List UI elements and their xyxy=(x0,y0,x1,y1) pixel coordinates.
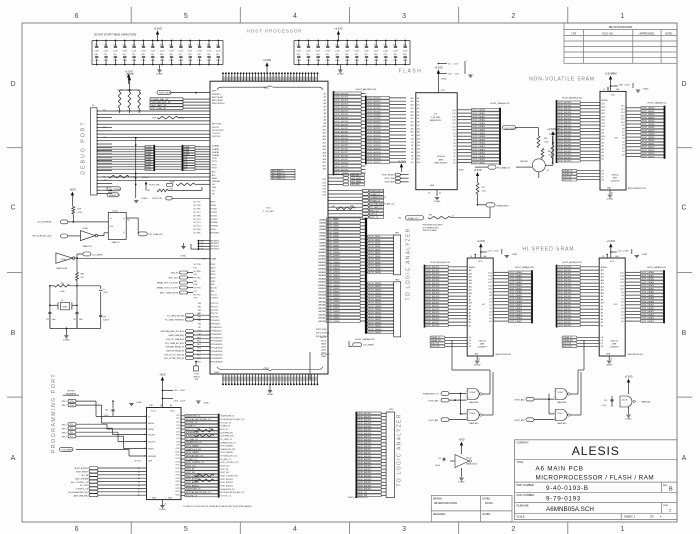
svg-text:BR/FT/BVRG4: BR/FT/BVRG4 xyxy=(212,103,224,105)
svg-text:OE: OE xyxy=(601,340,603,342)
svg-text:RTE/Y1: RTE/Y1 xyxy=(148,449,154,451)
svg-text:HOST_ADDR07: HOST_ADDR07 xyxy=(335,117,348,120)
svg-text:C53: C53 xyxy=(306,44,309,46)
svg-text:U13-C: U13-C xyxy=(557,413,563,415)
svg-text:1.00M: 1.00M xyxy=(60,291,65,293)
svg-text:HOST_ADDR04: HOST_ADDR04 xyxy=(558,279,571,282)
svg-text:5V CURRENT INTO: 5V CURRENT INTO xyxy=(423,227,440,229)
svg-text:HOST_ADDR(00:23): HOST_ADDR(00:23) xyxy=(430,261,450,264)
svg-text:C38: C38 xyxy=(188,54,191,56)
svg-text:D13: D13 xyxy=(621,112,624,114)
svg-text:HOST_ADDR02: HOST_ADDR02 xyxy=(368,104,381,107)
svg-text:SERIAL_HOST_TO_FRT: SERIAL_HOST_TO_FRT xyxy=(157,287,179,290)
svg-text:C84: C84 xyxy=(105,410,108,412)
svg-text:9-40-0193-B: 9-40-0193-B xyxy=(546,485,589,492)
svg-text:0.1uF: 0.1uF xyxy=(216,50,220,52)
svg-text:RXD2: RXD2 xyxy=(211,268,216,270)
svg-text:LTR: LTR xyxy=(571,31,576,35)
svg-text:0.1uF: 0.1uF xyxy=(179,50,183,52)
svg-text:A17: A17 xyxy=(601,269,604,272)
svg-text:HOST_ADDR11: HOST_ADDR11 xyxy=(558,301,571,304)
svg-text:MEYER/KOMUS/SHM: MEYER/KOMUS/SHM xyxy=(434,503,457,505)
svg-text:DATED:: DATED: xyxy=(483,498,492,501)
svg-text:HOST_DATA31: HOST_DATA31 xyxy=(327,320,340,323)
svg-text:D7: D7 xyxy=(453,140,455,142)
svg-text:HOST_DATA24: HOST_DATA24 xyxy=(327,297,340,300)
svg-text:HOST_DATA16: HOST_DATA16 xyxy=(327,271,340,274)
svg-text:C39: C39 xyxy=(197,54,200,56)
svg-text:N/C PB1: N/C PB1 xyxy=(194,233,201,235)
svg-text:HOST_DATA23: HOST_DATA23 xyxy=(327,294,340,297)
svg-text:HOST_DATA23: HOST_DATA23 xyxy=(369,305,382,308)
svg-text:D11: D11 xyxy=(621,119,624,121)
svg-text:D7: D7 xyxy=(622,132,624,134)
svg-text:HOST_ADDR05: HOST_ADDR05 xyxy=(558,282,571,285)
svg-text:C58: C58 xyxy=(151,44,154,46)
svg-text:I/O7: I/O7 xyxy=(176,438,179,440)
svg-text:C28: C28 xyxy=(297,54,300,56)
svg-text:TP9: TP9 xyxy=(70,424,73,426)
svg-text:HOST_DATA18: HOST_DATA18 xyxy=(327,277,340,280)
svg-text:HOST_ADDR11: HOST_ADDR11 xyxy=(368,134,381,137)
svg-text:EPLD_CS: EPLD_CS xyxy=(370,210,379,212)
svg-text:D: D xyxy=(10,81,15,88)
svg-text:HOST_ADDR18: HOST_ADDR18 xyxy=(358,471,371,474)
svg-text:0.033uF: 0.033uF xyxy=(103,319,109,321)
svg-text:C57: C57 xyxy=(73,319,76,321)
svg-text:DRSHW: DRSHW xyxy=(211,226,218,228)
svg-text:CS0_FLASH/USER_SEL: CS0_FLASH/USER_SEL xyxy=(68,491,88,494)
svg-text:HOST_ADDR18: HOST_ADDR18 xyxy=(426,324,439,327)
svg-text:HOST_ADDR11: HOST_ADDR11 xyxy=(335,130,348,133)
svg-text:D4: D4 xyxy=(453,149,455,151)
svg-text:HOST_ADDR16: HOST_ADDR16 xyxy=(368,151,381,154)
svg-text:0.1uF: 0.1uF xyxy=(455,74,459,76)
svg-text:HOST_ADDR02: HOST_ADDR02 xyxy=(335,99,348,102)
svg-text:C107|: C107| xyxy=(174,401,179,403)
svg-text:C52: C52 xyxy=(297,44,300,46)
svg-text:TP8: TP8 xyxy=(70,428,73,430)
svg-text:C: C xyxy=(10,205,15,212)
svg-text:A9: A9 xyxy=(469,295,471,298)
svg-text:HOST_ADDR05: HOST_ADDR05 xyxy=(335,110,348,113)
svg-text:A3: A3 xyxy=(417,104,419,107)
svg-text:HOST_DATA17: HOST_DATA17 xyxy=(327,274,340,277)
svg-text:HOST_DATA(00:31): HOST_DATA(00:31) xyxy=(491,102,510,105)
svg-text:HOST_DATA12: HOST_DATA12 xyxy=(642,310,655,313)
svg-text:HOST_ADDR01: HOST_ADDR01 xyxy=(335,96,348,99)
svg-text:3B2: 3B2 xyxy=(200,249,203,251)
svg-text:THIS RESISTOR LIMITS: THIS RESISTOR LIMITS xyxy=(423,225,444,227)
svg-text:0.1uF: 0.1uF xyxy=(316,50,320,52)
svg-text:DGND: DGND xyxy=(606,365,613,367)
svg-text:DATA10: DATA10 xyxy=(318,251,325,254)
svg-text:HOST_DATA10: HOST_DATA10 xyxy=(642,139,655,142)
svg-text:HOST_DATA29: HOST_DATA29 xyxy=(327,313,340,316)
svg-text:DGND: DGND xyxy=(156,74,163,76)
svg-text:W07_/BE(A): W07_/BE(A) xyxy=(352,180,362,183)
svg-text:HOST_DATA03: HOST_DATA03 xyxy=(473,119,486,122)
svg-text:A15: A15 xyxy=(410,114,413,117)
svg-text:2.2uF: 2.2uF xyxy=(345,60,349,62)
svg-text:A18: A18 xyxy=(410,104,413,107)
svg-text:D6: D6 xyxy=(489,302,491,304)
svg-text:C52: C52 xyxy=(94,44,97,46)
svg-text:CLK_80MHZ: CLK_80MHZ xyxy=(363,345,375,347)
svg-text:U13-B: U13-B xyxy=(470,413,476,415)
svg-text:TIN1: TIN1 xyxy=(211,291,215,293)
svg-text:N/C P7B: N/C P7B xyxy=(194,288,202,290)
svg-text:26: 26 xyxy=(165,504,167,506)
svg-text:A7: A7 xyxy=(417,117,419,120)
svg-text:A15: A15 xyxy=(323,142,326,145)
svg-text:HOST_BE1: HOST_BE1 xyxy=(429,420,439,422)
svg-text:DEBUG: DEBUG xyxy=(193,376,200,378)
svg-text:24: 24 xyxy=(144,448,146,450)
svg-text:KEYSCAN_ASIC_CS: KEYSCAN_ASIC_CS xyxy=(221,455,238,458)
svg-text:512KBYTE: 512KBYTE xyxy=(610,347,620,349)
svg-text:HOST_DATA2: HOST_DATA2 xyxy=(327,225,339,228)
svg-text:RELEASED:: RELEASED: xyxy=(433,513,446,516)
svg-text:PROG_SPARE2: PROG_SPARE2 xyxy=(221,451,234,454)
svg-text:CONTROL_CS: CONTROL_CS xyxy=(76,489,89,491)
svg-text:FLASH/USER_CS: FLASH/USER_CS xyxy=(423,393,439,396)
svg-text:DSCLK/TRST: DSCLK/TRST xyxy=(212,130,225,132)
svg-text:HOST_DATA20: HOST_DATA20 xyxy=(327,284,340,287)
svg-text:HOST_ADDR16: HOST_ADDR16 xyxy=(558,318,571,321)
svg-text:PSTCLR (28a)/1: PSTCLR (28a)/1 xyxy=(316,333,329,335)
svg-text:C62: C62 xyxy=(393,44,396,46)
svg-text:C28: C28 xyxy=(94,54,97,56)
svg-text:HOST_DATA01: HOST_DATA01 xyxy=(642,274,655,277)
svg-text:D4: D4 xyxy=(621,308,623,310)
svg-text:CS0_/CS_DMA_ACK: CS0_/CS_DMA_ACK xyxy=(166,338,185,341)
svg-text:.033uF: .033uF xyxy=(435,465,440,467)
svg-text:0.22uF: 0.22uF xyxy=(623,251,628,253)
svg-text:DGND: DGND xyxy=(141,198,147,200)
svg-text:B: B xyxy=(669,487,673,493)
svg-text:PIN 6: PIN 6 xyxy=(62,432,67,434)
svg-text:KEYSCAN_ASIC/FX_ASIC_CS: KEYSCAN_ASIC/FX_ASIC_CS xyxy=(221,418,246,421)
svg-text:HOST_ADDR11: HOST_ADDR11 xyxy=(358,448,371,451)
svg-text:DGND: DGND xyxy=(434,201,441,203)
svg-text:+3.3VD: +3.3VD xyxy=(434,67,442,70)
svg-text:CE: CE xyxy=(601,337,603,339)
svg-text:HOST_ADDR06: HOST_ADDR06 xyxy=(368,117,381,120)
svg-text:HOST_ADDR18: HOST_ADDR18 xyxy=(558,324,571,327)
svg-text:HOST_DATA15: HOST_DATA15 xyxy=(642,320,655,323)
svg-text:PC_CARD_PRESENT: PC_CARD_PRESENT xyxy=(165,319,185,322)
svg-text:DSP_CS: DSP_CS xyxy=(370,214,378,216)
svg-text:CAS2: CAS2 xyxy=(321,349,326,352)
svg-text:0.1uF: 0.1uF xyxy=(297,50,301,52)
svg-text:0.22uF: 0.22uF xyxy=(493,251,498,253)
svg-text:DRAM/VOICE_WR: DRAM/VOICE_WR xyxy=(186,448,202,451)
svg-text:D13: D13 xyxy=(452,120,455,122)
svg-text:CLK_49.875KHZ: CLK_49.875KHZ xyxy=(37,222,52,224)
svg-text:HOST_ADDR18: HOST_ADDR18 xyxy=(335,155,348,158)
svg-text:I/O17: I/O17 xyxy=(175,471,179,473)
svg-text:HOST_ADDR12: HOST_ADDR12 xyxy=(558,140,571,143)
svg-text:HOST_DATA0: HOST_DATA0 xyxy=(369,235,381,238)
svg-text:C64: C64 xyxy=(207,44,210,46)
svg-text:HOST_ADDR02: HOST_ADDR02 xyxy=(358,419,371,422)
svg-text:HOST_ADDR17: HOST_ADDR17 xyxy=(558,156,571,159)
svg-text:TP11: TP11 xyxy=(70,401,74,403)
svg-text:HOST_ADDR05: HOST_ADDR05 xyxy=(358,429,371,432)
svg-text:44: 44 xyxy=(439,192,441,194)
svg-text:A20: A20 xyxy=(417,161,420,164)
svg-text:C: C xyxy=(681,205,686,212)
svg-text:HOST_DATA05: HOST_DATA05 xyxy=(473,125,486,128)
svg-text:DLE_TA: DLE_TA xyxy=(81,474,88,477)
svg-text:HOST_DATA3: HOST_DATA3 xyxy=(369,245,381,248)
svg-text:GS6LV25616-10T: GS6LV25616-10T xyxy=(627,354,644,356)
svg-text:A10: A10 xyxy=(601,292,604,295)
svg-text:C37: C37 xyxy=(384,54,387,56)
svg-text:BKPT/TMS: BKPT/TMS xyxy=(212,124,222,126)
svg-text:HOST_CONTROL_RD: HOST_CONTROL_RD xyxy=(221,476,239,478)
svg-text:HOST_ADDR06: HOST_ADDR06 xyxy=(558,121,571,124)
svg-text:0.22uF: 0.22uF xyxy=(625,85,630,87)
svg-text:I/O6: I/O6 xyxy=(176,435,179,437)
svg-text:HOST_ADDR02: HOST_ADDR02 xyxy=(558,272,571,275)
svg-text:HOST_ADDR12: HOST_ADDR12 xyxy=(558,305,571,308)
svg-text:A3: A3 xyxy=(469,318,471,321)
svg-text:WTWDD3: WTWDD3 xyxy=(211,249,220,251)
svg-text:USER_DMA_REQ: USER_DMA_REQ xyxy=(73,494,88,497)
svg-text:A14: A14 xyxy=(410,117,413,120)
svg-text:PST: PST xyxy=(184,169,187,171)
svg-text:DATA19: DATA19 xyxy=(318,281,325,284)
svg-text:DATA11: DATA11 xyxy=(318,254,324,257)
svg-text:HOST_DATA4: HOST_DATA4 xyxy=(327,231,339,234)
svg-text:HOST_ADDR03: HOST_ADDR03 xyxy=(335,103,348,106)
svg-text:DATA21: DATA21 xyxy=(318,287,325,290)
svg-text:N/C PC4: N/C PC4 xyxy=(194,226,201,228)
svg-text:KEYSCAN_ASIC_CS: KEYSCAN_ASIC_CS xyxy=(186,454,204,457)
svg-text:D12: D12 xyxy=(452,123,455,125)
svg-text:D9: D9 xyxy=(621,292,623,294)
svg-text:A16: A16 xyxy=(469,272,472,275)
svg-text:+3.3VMEM: +3.3VMEM xyxy=(548,134,557,136)
svg-text:HOST_DATA28: HOST_DATA28 xyxy=(327,310,340,313)
svg-text:A18/NC: A18/NC xyxy=(601,266,608,269)
svg-text:HOST_DATA27: HOST_DATA27 xyxy=(327,307,340,310)
svg-text:HOST_RESET: HOST_RESET xyxy=(505,128,518,130)
svg-text:A12: A12 xyxy=(602,119,605,122)
svg-text:HOST_DATA10: HOST_DATA10 xyxy=(473,142,486,145)
svg-text:2.2uF: 2.2uF xyxy=(374,60,378,62)
svg-text:POWER_FAIL_INT: POWER_FAIL_INT xyxy=(152,98,170,101)
svg-text:CLK_40MHZ: CLK_40MHZ xyxy=(62,450,74,452)
svg-text:C31: C31 xyxy=(123,54,126,56)
svg-text:HOST_ADDR05: HOST_ADDR05 xyxy=(558,117,571,120)
svg-text:A1: A1 xyxy=(411,161,413,164)
svg-text:HOST_DATA02: HOST_DATA02 xyxy=(642,113,655,116)
svg-text:TITLE:: TITLE: xyxy=(517,461,525,464)
svg-text:A7: A7 xyxy=(411,141,413,144)
svg-text:HOST_ADDR04: HOST_ADDR04 xyxy=(558,114,571,117)
svg-text:A10: A10 xyxy=(323,125,326,128)
svg-text:A17: A17 xyxy=(469,269,472,272)
svg-text:HOST_ADDR01: HOST_ADDR01 xyxy=(558,104,571,107)
svg-text:A4: A4 xyxy=(469,315,471,318)
svg-text:C54: C54 xyxy=(113,44,116,46)
svg-text:KEYSCAN_ASIC/FX_ASIC_CS: KEYSCAN_ASIC/FX_ASIC_CS xyxy=(186,418,211,421)
svg-text:HOST_ADDR06: HOST_ADDR06 xyxy=(335,113,348,116)
svg-text:VCC: VCC xyxy=(611,94,616,96)
svg-text:A19: A19 xyxy=(323,155,326,158)
svg-text:2.2uF: 2.2uF xyxy=(104,60,108,62)
svg-text:U15-B: U15-B xyxy=(466,458,472,460)
svg-text:U13-A: U13-A xyxy=(470,391,476,394)
svg-text:VCC1: VCC1 xyxy=(170,411,175,413)
svg-text:R92: R92 xyxy=(429,215,432,217)
svg-text:HOST_ADDR10: HOST_ADDR10 xyxy=(368,131,381,134)
svg-text:2.2uF: 2.2uF xyxy=(207,60,211,62)
svg-text:BB/TT/BGR2: BB/TT/BGR2 xyxy=(212,100,223,102)
svg-text:5: 5 xyxy=(184,13,188,20)
svg-text:C37: C37 xyxy=(179,54,182,56)
svg-text:D8: D8 xyxy=(621,295,623,297)
svg-text:A11: A11 xyxy=(602,122,605,125)
svg-text:DATA7: DATA7 xyxy=(319,241,325,244)
svg-text:HOST_ADDR04: HOST_ADDR04 xyxy=(426,279,439,282)
svg-text:HOST_ADDR02: HOST_ADDR02 xyxy=(426,272,439,275)
svg-text:R58: R58 xyxy=(544,138,547,140)
svg-text:PB12: PB12 xyxy=(197,344,201,346)
svg-text:0.1uF: 0.1uF xyxy=(207,50,211,52)
svg-text:THE 3.3V FLASH: THE 3.3V FLASH xyxy=(423,229,438,232)
svg-text:C57: C57 xyxy=(345,44,348,46)
svg-text:PART NUMBER:: PART NUMBER: xyxy=(517,484,535,487)
svg-text:A2: A2 xyxy=(417,100,419,103)
svg-text:HOST_DATA04: HOST_DATA04 xyxy=(642,284,655,287)
svg-text:CS0: CS0 xyxy=(322,179,326,181)
svg-text:DGND: DGND xyxy=(474,365,481,367)
svg-text:PIN 7: PIN 7 xyxy=(62,405,67,407)
svg-text:A12: A12 xyxy=(417,134,420,137)
svg-text:PP7/A20R24: PP7/A20R24 xyxy=(211,326,222,329)
svg-text:A10: A10 xyxy=(602,125,605,128)
svg-text:HOST_DATA3: HOST_DATA3 xyxy=(327,228,339,231)
svg-text:FILENAME:: FILENAME: xyxy=(517,504,530,507)
svg-text:D3: D3 xyxy=(621,311,623,313)
svg-text:C62: C62 xyxy=(188,44,191,46)
svg-text:D1: D1 xyxy=(453,159,455,161)
svg-text:HOST_DATA12: HOST_DATA12 xyxy=(642,146,655,149)
svg-text:HOST_DATA06: HOST_DATA06 xyxy=(642,291,655,294)
svg-text:PCRAM_CS: PCRAM_CS xyxy=(186,425,197,428)
svg-text:GND: GND xyxy=(430,185,435,187)
svg-text:COMPANY:: COMPANY: xyxy=(517,442,530,445)
svg-text:UB: UB xyxy=(601,346,603,348)
svg-text:C30: C30 xyxy=(316,54,319,56)
svg-text:2_70_5307: 2_70_5307 xyxy=(263,211,275,213)
svg-text:C73: C73 xyxy=(438,458,441,460)
svg-text:PST2: PST2 xyxy=(212,164,217,166)
svg-text:+3.3VD: +3.3VD xyxy=(141,177,148,179)
svg-text:HOST_DATA31: HOST_DATA31 xyxy=(369,331,382,334)
svg-text:HOST_DATA09: HOST_DATA09 xyxy=(473,138,486,141)
svg-text:2.2uF: 2.2uF xyxy=(335,60,339,62)
svg-text:A7: A7 xyxy=(469,305,471,308)
svg-text:TP34: TP34 xyxy=(389,409,394,411)
svg-text:APPROVED:: APPROVED: xyxy=(639,31,654,35)
svg-text:HOST_ADDR17: HOST_ADDR17 xyxy=(558,321,571,324)
svg-text:PCRS0: PCRS0 xyxy=(211,209,217,211)
svg-text:D4: D4 xyxy=(622,141,624,143)
svg-text:2: 2 xyxy=(511,526,515,533)
svg-text:HOST_ADDR09: HOST_ADDR09 xyxy=(426,295,439,298)
svg-text:A18/NC: A18/NC xyxy=(602,99,609,102)
svg-text:HOST_DATA(00:15): HOST_DATA(00:15) xyxy=(647,266,666,269)
svg-text:N/C PB3: N/C PB3 xyxy=(194,205,201,207)
svg-text:HOST_DATA5: HOST_DATA5 xyxy=(369,252,381,255)
svg-text:5: 5 xyxy=(184,526,188,533)
svg-text:A1: A1 xyxy=(324,96,326,99)
svg-text:PROG_CLK: PROG_CLK xyxy=(221,466,231,468)
svg-text:DGND: DGND xyxy=(441,79,447,81)
svg-text:0.1uF: 0.1uF xyxy=(364,50,368,52)
svg-text:HOST_ADDR02: HOST_ADDR02 xyxy=(558,108,571,111)
svg-text:R86: R86 xyxy=(60,283,63,285)
svg-text:HOST_BE0: HOST_BE0 xyxy=(429,400,439,402)
svg-text:A22: A22 xyxy=(323,165,326,168)
svg-text:HOST_DATA07: HOST_DATA07 xyxy=(642,129,655,132)
svg-text:HOST_RESET: HOST_RESET xyxy=(159,93,173,95)
svg-text:N/C P7D: N/C P7D xyxy=(194,294,202,296)
svg-text:HOST_ADDR14: HOST_ADDR14 xyxy=(335,141,348,144)
svg-text:HOST_DATA19: HOST_DATA19 xyxy=(369,292,382,295)
svg-text:D9: D9 xyxy=(453,133,455,135)
svg-text:HOST_ADDR(00:23): HOST_ADDR(00:23) xyxy=(562,261,582,264)
svg-text:+3.3VD: +3.3VD xyxy=(125,73,133,76)
svg-text:HOST_DATA19: HOST_DATA19 xyxy=(327,281,340,284)
svg-text:BE0 DATA(24:31): BE0 DATA(24:31) xyxy=(272,177,286,180)
svg-text:+5VD: +5VD xyxy=(159,374,165,377)
svg-text:0.1uF: 0.1uF xyxy=(141,50,145,52)
svg-text:HOST_DATA21: HOST_DATA21 xyxy=(327,287,340,290)
svg-text:I/O15: I/O15 xyxy=(175,465,179,467)
svg-text:TCK/TCK: TCK/TCK xyxy=(212,133,221,135)
svg-text:HOST_ADDR14: HOST_ADDR14 xyxy=(558,311,571,314)
svg-text:I/O21: I/O21 xyxy=(175,485,179,487)
svg-text:OE: OE xyxy=(469,340,471,342)
svg-text:4.75k: 4.75k xyxy=(131,176,135,178)
svg-text:DATE:: DATE: xyxy=(665,31,673,35)
svg-text:C40: C40 xyxy=(207,54,210,56)
svg-text:HOST_DATA13: HOST_DATA13 xyxy=(642,149,655,152)
svg-text:DATA13: DATA13 xyxy=(318,261,325,264)
svg-text:LB: LB xyxy=(469,343,471,345)
svg-text:PC/CTRL_CS: PC/CTRL_CS xyxy=(221,495,232,497)
svg-text:HOST_ADDR05: HOST_ADDR05 xyxy=(368,114,381,117)
svg-text:HOST_DATA02: HOST_DATA02 xyxy=(642,278,655,281)
svg-text:C65: C65 xyxy=(216,44,219,46)
svg-text:2: 2 xyxy=(511,13,515,20)
svg-text:DEBUG PORT: DEBUG PORT xyxy=(81,120,87,174)
svg-text:BCLK0 (28b)/1: BCLK0 (28b)/1 xyxy=(316,336,328,338)
svg-text:3: 3 xyxy=(402,526,406,533)
svg-text:FLA6K_CS: FLA6K_CS xyxy=(408,217,418,220)
svg-text:3: 3 xyxy=(402,13,406,20)
svg-text:HOST_ADDR23: HOST_ADDR23 xyxy=(358,488,371,491)
svg-text:A15: A15 xyxy=(602,109,605,112)
svg-text:PB15: PB15 xyxy=(197,355,201,357)
svg-text:FLASH_BUSY: FLASH_BUSY xyxy=(497,204,510,207)
